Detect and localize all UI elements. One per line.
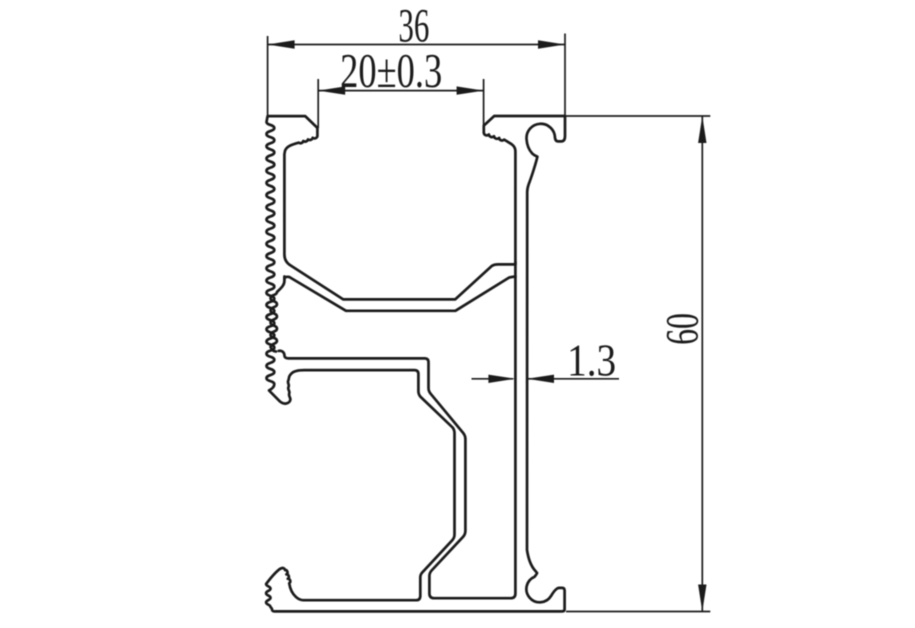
dim 20±0.3 dimension line (318, 90, 483, 92)
svg-text:60: 60 (656, 313, 709, 345)
dim 36 extension line right (564, 34, 566, 116)
dim 60 arrow bottom (698, 585, 706, 612)
dim 36 dimension line (268, 44, 565, 46)
dim 60 arrow top (698, 116, 706, 143)
dim 60 extension line top (566, 115, 710, 117)
dim text 20±0.3 (340, 45, 442, 98)
dim 36 extension line left (267, 36, 269, 115)
dim text 60 (656, 313, 709, 345)
dim 36 arrow right (538, 40, 565, 48)
dim 20±0.3 extension line right (483, 79, 485, 128)
shelf top line, leg right side, inner bottom right, cavity right wall inner line (279, 262, 516, 598)
strip inner wavy edge (271, 277, 285, 352)
dim 20±0.3 extension line left (317, 79, 319, 128)
dim 1.3 arrow left (points right) (488, 375, 515, 383)
dim 1.3 arrow right (points left) (527, 375, 554, 383)
dim 1.3 leader right (527, 378, 619, 380)
dim 60 dimension line (701, 116, 703, 612)
profile outer outline (266, 116, 565, 611)
svg-text:20±0.3: 20±0.3 (340, 45, 442, 98)
dim 20±0.3 arrow right (457, 86, 484, 94)
dim 36 arrow left (268, 40, 295, 48)
dim text 1.3 (567, 336, 616, 386)
dim 1.3 leader left (472, 378, 514, 380)
svg-text:1.3: 1.3 (567, 336, 616, 386)
cavity floor lower line (284, 277, 515, 311)
dim text 36 (398, 0, 429, 52)
dim 60 extension line bottom (566, 611, 710, 613)
dim 20±0.3 arrow left (318, 86, 345, 94)
